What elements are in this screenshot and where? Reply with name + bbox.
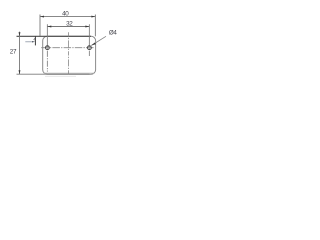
svg-text:Ø4: Ø4 xyxy=(109,29,118,36)
svg-text:32: 32 xyxy=(66,21,73,28)
svg-text:4: 4 xyxy=(33,38,35,42)
svg-text:40: 40 xyxy=(62,11,69,18)
svg-text:27: 27 xyxy=(10,48,17,55)
